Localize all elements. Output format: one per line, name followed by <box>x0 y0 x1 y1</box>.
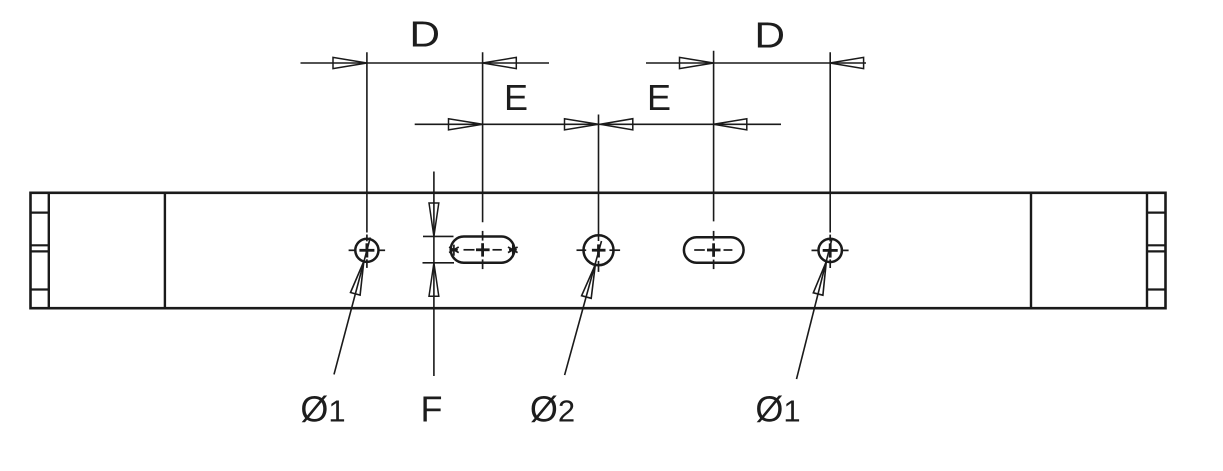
centerlines circle O2 <box>577 250 621 272</box>
dimension line D left <box>301 62 550 64</box>
F dimension vertical line <box>433 172 435 377</box>
svg-text:D: D <box>754 15 785 55</box>
hole circle O1 left <box>355 239 378 262</box>
dimension line D right <box>646 62 866 64</box>
arrows E <box>449 119 483 130</box>
slot right <box>684 237 744 262</box>
slot left end mark star left <box>449 245 459 256</box>
hole circle O2 center <box>584 235 614 265</box>
svg-text:Ø2: Ø2 <box>530 389 575 430</box>
F tick top <box>423 235 454 237</box>
bar inner vertical line right segment <box>1030 193 1032 308</box>
centerlines circle O1 left <box>349 235 386 268</box>
F tick bottom <box>423 262 455 264</box>
svg-text:F: F <box>421 389 443 430</box>
right strip notch lines <box>1147 213 1166 290</box>
arrows D left <box>333 57 864 129</box>
bar outline <box>31 193 1166 308</box>
bar inner vertical line right strip <box>1146 193 1148 308</box>
slot left end mark star right <box>508 245 518 256</box>
bar inner vertical line left segment <box>164 193 166 308</box>
svg-text:Ø1: Ø1 <box>755 389 800 430</box>
svg-text:E: E <box>647 77 671 118</box>
leader O2 <box>565 241 602 375</box>
leader O1 left <box>334 238 370 375</box>
centerlines circle O1 right <box>812 235 849 268</box>
extension line x367 <box>366 52 368 232</box>
F arrow up <box>429 263 439 297</box>
svg-text:E: E <box>504 77 528 118</box>
dimension lines <box>301 51 867 241</box>
F dimension <box>423 172 455 377</box>
slot left <box>451 237 515 263</box>
dimension line E <box>415 123 781 125</box>
arrows D right <box>680 57 714 68</box>
extension line x830 <box>829 52 831 232</box>
svg-text:D: D <box>409 14 440 54</box>
extension line x483 <box>482 52 484 222</box>
leader O1 right <box>797 239 833 380</box>
F arrow down <box>429 203 439 236</box>
left strip notch lines <box>31 213 49 290</box>
extension line x713 <box>713 51 715 222</box>
bar inner vertical line left strip <box>48 193 50 308</box>
hole circle O1 right <box>819 239 842 262</box>
centerlines slot right <box>694 231 732 269</box>
extension line x599 <box>598 115 600 242</box>
svg-text:Ø1: Ø1 <box>300 389 345 430</box>
centerlines slot left <box>464 231 502 269</box>
